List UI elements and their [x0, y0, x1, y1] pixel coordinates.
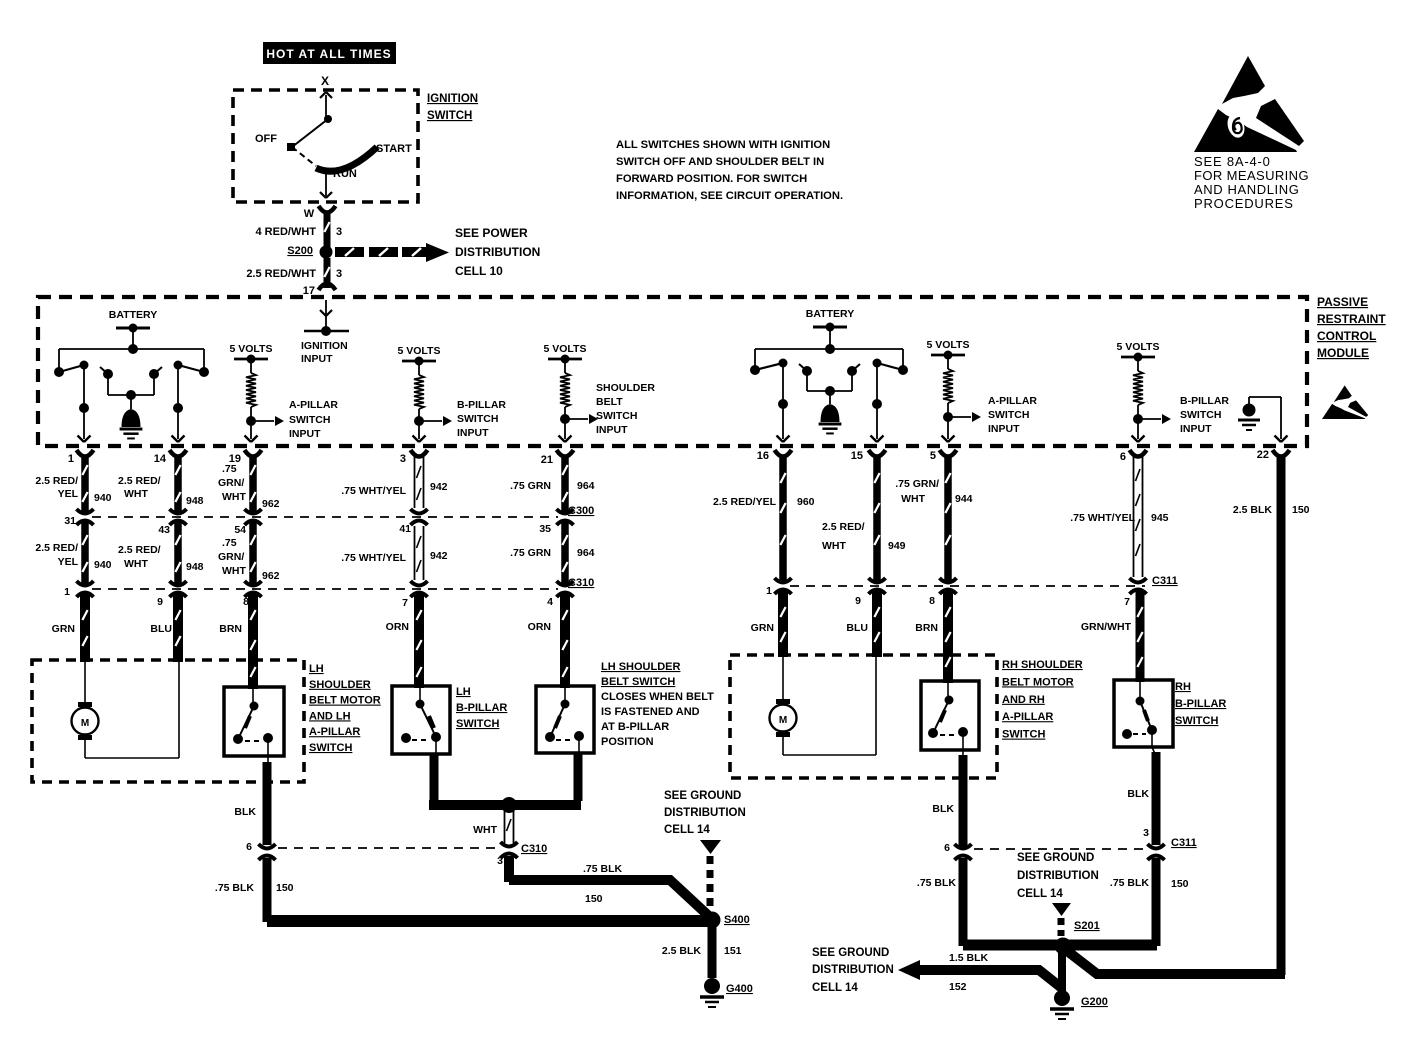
svg-text:4 RED/WHT: 4 RED/WHT — [256, 226, 317, 238]
connector at ignition switch output — [319, 206, 336, 213]
svg-text:16: 16 — [757, 450, 769, 462]
svg-text:2.5 RED/: 2.5 RED/ — [118, 544, 161, 556]
svg-text:GRN/: GRN/ — [218, 551, 244, 563]
wire BLK from RH A-pillar switch — [962, 750, 964, 757]
svg-text:FOR MEASURING: FOR MEASURING — [1194, 168, 1309, 183]
svg-text:2.5 RED/: 2.5 RED/ — [118, 475, 161, 487]
svg-text:WHT: WHT — [124, 488, 148, 500]
svg-text:INPUT: INPUT — [988, 423, 1020, 435]
wire bottom bus into S201 — [963, 940, 1157, 951]
wire 1.5 BLK 152 — [918, 970, 1063, 989]
wire ground run LH bottom — [267, 915, 707, 927]
svg-text:C310: C310 — [568, 577, 594, 589]
svg-text:.75 WHT/YEL: .75 WHT/YEL — [341, 485, 406, 497]
svg-text:2.5 RED/YEL: 2.5 RED/YEL — [713, 496, 777, 508]
splice S400 — [704, 912, 721, 929]
svg-text:M: M — [81, 718, 89, 729]
svg-text:A-PILLAR: A-PILLAR — [309, 726, 360, 738]
relay contact to pin 14 — [203, 349, 205, 370]
svg-text:BLK: BLK — [1127, 788, 1149, 800]
svg-text:151: 151 — [724, 945, 742, 957]
svg-text:3: 3 — [336, 226, 342, 238]
svg-text:DISTRIBUTION: DISTRIBUTION — [1017, 870, 1099, 882]
svg-text:2.5 RED/: 2.5 RED/ — [35, 542, 78, 554]
LH B-pillar switch — [392, 686, 450, 754]
svg-text:LH: LH — [309, 663, 324, 675]
motor M LH — [84, 662, 86, 703]
svg-text:S200: S200 — [287, 245, 313, 257]
svg-text:962: 962 — [262, 498, 280, 510]
wire 949 circuit pin15 to C311 — [873, 456, 881, 582]
svg-text:SWITCH: SWITCH — [1002, 729, 1045, 741]
svg-text:WHT: WHT — [222, 491, 246, 503]
svg-text:BLU: BLU — [150, 623, 172, 635]
svg-text:WHT: WHT — [124, 558, 148, 570]
svg-text:SWITCH: SWITCH — [457, 413, 498, 425]
svg-text:31: 31 — [64, 515, 76, 527]
svg-text:964: 964 — [577, 480, 595, 492]
svg-text:5 VOLTS: 5 VOLTS — [1117, 341, 1160, 353]
passive restraint control module box — [38, 297, 1307, 446]
svg-text:21: 21 — [541, 454, 553, 466]
svg-text:150: 150 — [1171, 878, 1189, 890]
svg-text:MODULE: MODULE — [1317, 346, 1369, 360]
wire 962 circuit pin19 to C300 — [249, 456, 257, 513]
svg-text:5 VOLTS: 5 VOLTS — [398, 345, 441, 357]
svg-text:CLOSES WHEN BELT: CLOSES WHEN BELT — [601, 691, 714, 703]
wire ORN to LH B-pillar switch — [414, 593, 424, 688]
svg-text:BELT MOTOR: BELT MOTOR — [309, 695, 381, 707]
svg-text:3: 3 — [400, 453, 406, 465]
svg-text:C310: C310 — [521, 843, 547, 855]
wire .75 BLK RH left leg — [959, 858, 968, 946]
svg-text:1.5 BLK: 1.5 BLK — [949, 952, 989, 964]
svg-text:WHT: WHT — [222, 565, 246, 577]
svg-text:LH SHOULDER: LH SHOULDER — [601, 661, 681, 673]
svg-text:948: 948 — [186, 561, 204, 573]
svg-text:SEE GROUND: SEE GROUND — [1017, 852, 1094, 864]
wire BRN to RH A-pillar switch — [943, 590, 953, 683]
svg-text:22: 22 — [1257, 449, 1269, 461]
svg-text:SWITCH: SWITCH — [427, 110, 472, 122]
wire 4 RED/WHT 3 — [324, 212, 331, 248]
svg-text:INPUT: INPUT — [1180, 423, 1212, 435]
svg-text:RESTRAINT: RESTRAINT — [1317, 312, 1386, 326]
svg-text:SWITCH: SWITCH — [596, 410, 637, 422]
wire battery bus left — [59, 348, 204, 350]
connector at module pin 17 — [319, 284, 336, 291]
wire 964 circuit pin21 to C300 — [561, 456, 569, 513]
svg-text:B-PILLAR: B-PILLAR — [457, 399, 506, 411]
svg-text:G400: G400 — [726, 983, 753, 995]
svg-text:GRN/: GRN/ — [218, 477, 244, 489]
wire 948 circuit pin14 to C300 — [174, 456, 182, 513]
svg-text:BLU: BLU — [846, 622, 868, 634]
motor M RH — [782, 657, 784, 700]
svg-text:SWITCH: SWITCH — [1180, 409, 1221, 421]
svg-text:C311: C311 — [1152, 575, 1178, 587]
svg-text:3: 3 — [336, 268, 342, 280]
svg-text:944: 944 — [955, 493, 973, 505]
svg-text:2.5 RED/WHT: 2.5 RED/WHT — [246, 268, 316, 280]
RH B-pillar switch — [1114, 680, 1173, 747]
svg-text:BATTERY: BATTERY — [109, 309, 157, 321]
svg-text:INFORMATION, SEE CIRCUIT OPERA: INFORMATION, SEE CIRCUIT OPERATION. — [616, 190, 843, 202]
svg-text:POSITION: POSITION — [601, 736, 654, 748]
relay coil to ground left — [103, 369, 113, 379]
svg-text:.75 GRN/: .75 GRN/ — [895, 478, 939, 490]
svg-text:RUN: RUN — [333, 168, 357, 180]
wire WHT — [504, 810, 506, 843]
svg-text:G200: G200 — [1081, 996, 1108, 1008]
svg-text:WHT: WHT — [822, 540, 846, 552]
svg-text:AND HANDLING: AND HANDLING — [1194, 182, 1299, 197]
svg-text:960: 960 — [797, 496, 815, 508]
wire 960 circuit pin16 to C311 — [779, 456, 787, 582]
svg-text:948: 948 — [186, 495, 204, 507]
LH shoulder belt switch — [536, 686, 594, 753]
RH A-pillar switch — [921, 681, 979, 750]
svg-text:.75: .75 — [222, 463, 237, 475]
svg-text:BELT: BELT — [596, 396, 623, 408]
wire battery bus right — [755, 348, 903, 350]
svg-text:SEE 8A-4-0: SEE 8A-4-0 — [1194, 154, 1271, 169]
svg-text:6: 6 — [246, 841, 252, 853]
svg-text:41: 41 — [399, 523, 411, 535]
svg-text:AND RH: AND RH — [1002, 694, 1045, 706]
svg-text:5 VOLTS: 5 VOLTS — [544, 343, 587, 355]
ground in module left — [130, 395, 132, 409]
svg-text:CELL 10: CELL 10 — [455, 264, 503, 278]
svg-text:OFF: OFF — [255, 133, 277, 145]
wire GRN to RH motor — [778, 590, 788, 657]
svg-text:W: W — [304, 208, 315, 220]
wire GRN/WHT to RH B-pillar switch — [1136, 590, 1145, 682]
svg-text:B-PILLAR: B-PILLAR — [1180, 395, 1229, 407]
svg-text:M: M — [779, 715, 787, 726]
junction bar LH switches — [429, 800, 581, 810]
svg-text:9: 9 — [855, 595, 861, 607]
svg-text:INPUT: INPUT — [457, 427, 489, 439]
svg-text:6: 6 — [1120, 451, 1126, 463]
wire 2.5 RED/WHT 3 — [324, 258, 331, 288]
wire RH B-pillar switch output BLK — [1152, 747, 1155, 754]
svg-text:YEL: YEL — [58, 556, 79, 568]
svg-text:IS FASTENED AND: IS FASTENED AND — [601, 706, 700, 718]
svg-text:BLK: BLK — [932, 803, 954, 815]
svg-text:.75 BLK: .75 BLK — [215, 882, 255, 894]
svg-text:2.5 RED/: 2.5 RED/ — [35, 475, 78, 487]
wire LH B-pillar switch output — [430, 754, 439, 801]
wire BRN to LH A-pillar switch — [248, 593, 258, 689]
svg-text:949: 949 — [888, 540, 906, 552]
svg-text:X: X — [321, 74, 329, 88]
svg-text:1: 1 — [68, 453, 74, 465]
svg-text:SEE GROUND: SEE GROUND — [812, 947, 889, 959]
svg-text:5 VOLTS: 5 VOLTS — [927, 339, 970, 351]
wire 962 C300 to C310 — [249, 521, 257, 585]
wire from ground distribution to S400 — [700, 840, 721, 854]
svg-text:BRN: BRN — [219, 623, 242, 635]
relay coil to ground right — [802, 366, 812, 376]
svg-text:CONTROL: CONTROL — [1317, 329, 1376, 343]
svg-text:2.5 RED/: 2.5 RED/ — [822, 521, 865, 533]
svg-text:2.5 BLK: 2.5 BLK — [1233, 504, 1273, 516]
svg-text:43: 43 — [158, 524, 170, 536]
wire 940 C300 to C310 — [81, 521, 89, 585]
wire BLU to LH motor — [173, 593, 183, 662]
svg-text:S201: S201 — [1074, 920, 1100, 932]
wire 150 circuit pin22 down right side — [1277, 456, 1286, 975]
svg-text:SWITCH: SWITCH — [309, 742, 352, 754]
svg-text:GRN/WHT: GRN/WHT — [1081, 621, 1132, 633]
svg-text:942: 942 — [430, 481, 448, 493]
svg-text:INPUT: INPUT — [289, 428, 321, 440]
svg-text:5 VOLTS: 5 VOLTS — [230, 343, 273, 355]
wire S201 to G200 — [1058, 952, 1066, 992]
LH A-pillar switch — [224, 687, 284, 756]
RH shoulder belt motor and A-pillar switch box — [730, 655, 997, 778]
svg-text:SHOULDER: SHOULDER — [596, 382, 655, 394]
wire ORN to LH shoulder belt switch — [560, 593, 570, 688]
relay contact to pin 16 — [754, 349, 756, 368]
svg-text:S400: S400 — [724, 914, 750, 926]
wire motor return RH — [783, 754, 876, 756]
svg-text:940: 940 — [94, 559, 112, 571]
connector C310 — [77, 585, 93, 594]
svg-text:.75 GRN: .75 GRN — [510, 547, 551, 559]
wire LH shoulder switch output — [574, 753, 583, 801]
ignition switch box — [233, 90, 418, 202]
svg-text:15: 15 — [851, 450, 863, 462]
svg-text:LH: LH — [456, 686, 471, 698]
svg-text:150: 150 — [1292, 504, 1310, 516]
svg-text:HOT AT ALL TIMES: HOT AT ALL TIMES — [266, 47, 391, 61]
svg-text:6: 6 — [944, 842, 950, 854]
svg-text:.75 GRN: .75 GRN — [510, 480, 551, 492]
connector C311 — [775, 582, 791, 591]
svg-text:GRN: GRN — [52, 623, 75, 635]
svg-text:35: 35 — [539, 523, 551, 535]
svg-text:BATTERY: BATTERY — [806, 308, 854, 320]
svg-text:DISTRIBUTION: DISTRIBUTION — [812, 964, 894, 976]
svg-text:3: 3 — [497, 855, 503, 867]
ignition input pin 17 — [320, 310, 326, 316]
svg-text:54: 54 — [234, 524, 246, 536]
svg-text:AND LH: AND LH — [309, 710, 351, 722]
svg-text:SEE GROUND: SEE GROUND — [664, 790, 741, 802]
svg-text:9: 9 — [157, 596, 163, 608]
svg-text:152: 152 — [949, 981, 967, 993]
ignition switch contacts — [324, 115, 332, 123]
svg-text:940: 940 — [94, 492, 112, 504]
svg-text:CELL 14: CELL 14 — [812, 982, 858, 994]
wire motor return LH — [85, 757, 179, 759]
relay contact to pin 15 — [902, 349, 904, 368]
svg-text:A-PILLAR: A-PILLAR — [988, 395, 1037, 407]
svg-text:7: 7 — [1124, 596, 1130, 608]
wire from ground distribution to S201 — [1052, 903, 1071, 916]
relay contact to pin 1 — [58, 349, 60, 370]
ground in module right — [829, 391, 831, 404]
svg-text:B-PILLAR: B-PILLAR — [456, 702, 507, 714]
svg-text:SWITCH: SWITCH — [1175, 715, 1218, 727]
svg-text:CELL 14: CELL 14 — [1017, 888, 1063, 900]
svg-text:SWITCH: SWITCH — [988, 409, 1029, 421]
wire S201 to wire 150 — [1066, 950, 1285, 974]
svg-text:CELL 14: CELL 14 — [664, 824, 710, 836]
connector C300 — [77, 513, 93, 522]
svg-text:.75 BLK: .75 BLK — [917, 877, 957, 889]
arrow to SEE POWER DISTRIBUTION CELL 10 — [335, 247, 364, 257]
svg-text:YEL: YEL — [58, 488, 79, 500]
svg-text:GRN: GRN — [751, 622, 774, 634]
wire ignition feed into switch — [325, 95, 327, 119]
svg-text:WHT: WHT — [473, 824, 497, 836]
svg-text:1: 1 — [766, 585, 772, 597]
svg-text:ORN: ORN — [386, 621, 409, 633]
wire GRN to LH motor — [80, 593, 90, 662]
svg-text:A-PILLAR: A-PILLAR — [289, 399, 338, 411]
svg-text:DISTRIBUTION: DISTRIBUTION — [455, 245, 540, 259]
svg-text:150: 150 — [585, 893, 603, 905]
LH shoulder belt motor and A-pillar switch box — [32, 660, 304, 782]
svg-text:SWITCH: SWITCH — [289, 414, 330, 426]
svg-text:.75 WHT/YEL: .75 WHT/YEL — [1070, 512, 1135, 524]
connector C310 lower — [501, 846, 517, 855]
ESD symbol small — [1322, 385, 1368, 419]
svg-text:3: 3 — [1143, 827, 1149, 839]
svg-text:8: 8 — [929, 595, 935, 607]
svg-text:945: 945 — [1151, 512, 1169, 524]
svg-text:PASSIVE: PASSIVE — [1317, 295, 1368, 309]
wire .75 BLK 150 RH right leg — [1152, 858, 1161, 946]
wire BLK from LH A-pillar switch — [267, 756, 269, 764]
svg-text:A-PILLAR: A-PILLAR — [1002, 711, 1053, 723]
wire 942 C300 to C310 — [414, 526, 416, 580]
wire 944 circuit pin5 to C311 — [944, 456, 952, 582]
svg-text:.75 BLK: .75 BLK — [1110, 877, 1150, 889]
svg-text:150: 150 — [276, 882, 294, 894]
wire 2.5 BLK 151 — [708, 927, 717, 978]
svg-text:B-PILLAR: B-PILLAR — [1175, 698, 1226, 710]
wire 948 C300 to C310 — [174, 521, 182, 585]
wire 940 circuit pin1 to C300 — [81, 456, 89, 513]
svg-text:SHOULDER: SHOULDER — [309, 679, 371, 691]
svg-text:BELT MOTOR: BELT MOTOR — [1002, 676, 1074, 688]
svg-text:FORWARD POSITION. FOR SWITCH: FORWARD POSITION. FOR SWITCH — [616, 173, 807, 185]
svg-text:C311: C311 — [1171, 837, 1197, 849]
svg-text:962: 962 — [262, 570, 280, 582]
wire BLU to RH motor — [872, 590, 882, 657]
svg-text:BRN: BRN — [915, 622, 938, 634]
svg-text:WHT: WHT — [901, 493, 925, 505]
svg-text:964: 964 — [577, 547, 595, 559]
svg-text:IGNITION: IGNITION — [427, 93, 478, 105]
ground G200 — [1054, 990, 1070, 1006]
wire .75 BLK 150 LH — [263, 858, 272, 922]
svg-text:SWITCH OFF AND SHOULDER BELT I: SWITCH OFF AND SHOULDER BELT IN — [616, 156, 824, 168]
svg-text:ORN: ORN — [528, 621, 551, 633]
svg-text:PROCEDURES: PROCEDURES — [1194, 196, 1294, 211]
svg-text:1: 1 — [64, 586, 70, 598]
svg-text:C300: C300 — [568, 505, 594, 517]
ESD sensitivity symbol — [1194, 56, 1304, 152]
svg-text:BLK: BLK — [234, 806, 256, 818]
svg-text:ALL SWITCHES SHOWN WITH IGNITI: ALL SWITCHES SHOWN WITH IGNITION — [616, 139, 830, 151]
svg-text:942: 942 — [430, 550, 448, 562]
svg-text:AT B-PILLAR: AT B-PILLAR — [601, 721, 669, 733]
svg-text:SEE POWER: SEE POWER — [455, 226, 528, 240]
svg-text:14: 14 — [154, 453, 167, 465]
svg-text:.75 WHT/YEL: .75 WHT/YEL — [341, 552, 406, 564]
svg-text:7: 7 — [402, 597, 408, 609]
svg-text:5: 5 — [930, 450, 936, 462]
svg-text:BELT SWITCH: BELT SWITCH — [601, 676, 675, 688]
svg-text:4: 4 — [547, 596, 553, 608]
wire 945 circuit pin6 to C311 — [1133, 456, 1135, 577]
wire 942 circuit pin3 to C300 — [414, 456, 416, 508]
power label HOT AT ALL TIMES — [263, 42, 396, 64]
svg-text:INPUT: INPUT — [596, 424, 628, 436]
svg-text:START: START — [376, 143, 412, 155]
ground G400 — [704, 978, 720, 994]
svg-text:RH: RH — [1175, 681, 1191, 693]
ground at pin 22 in module — [1249, 396, 1281, 398]
wire 964 C300 to C310 — [561, 521, 569, 585]
svg-text:DISTRIBUTION: DISTRIBUTION — [664, 807, 746, 819]
svg-text:.75: .75 — [222, 537, 237, 549]
svg-text:RH SHOULDER: RH SHOULDER — [1002, 659, 1083, 671]
svg-text:2.5 BLK: 2.5 BLK — [662, 945, 702, 957]
svg-text:SWITCH: SWITCH — [456, 718, 499, 730]
wire .75 BLK 150 center — [504, 856, 514, 882]
svg-text:INPUT: INPUT — [301, 353, 333, 365]
svg-text:.75 BLK: .75 BLK — [583, 863, 623, 875]
svg-text:IGNITION: IGNITION — [301, 340, 348, 352]
